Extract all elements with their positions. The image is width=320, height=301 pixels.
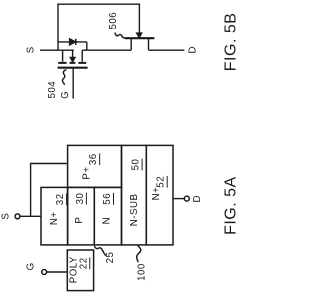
label 25 leader squiggle [94,246,105,256]
node S (FIG.5B) [25,46,36,53]
label 504 leader squiggle [62,70,66,85]
label N (box 56) [101,217,112,225]
svg-text:32: 32 [55,193,66,205]
wire S lead (FIG.5B) [40,49,74,51]
transistor 506 channel bar [125,37,155,39]
label N+ (box 52) [151,187,162,201]
wire N+ 52 to D [173,198,184,200]
svg-text:30: 30 [75,193,86,205]
transistor 504 body stub [72,50,74,57]
label 504 [47,81,58,99]
transistor 506 right leg [148,39,150,50]
region box N-SUB 50 [122,145,147,245]
diode (body diode of 504) [70,39,76,45]
region box N 56 [94,187,121,245]
svg-text:D: D [188,46,199,54]
label POLY (box 22) [68,256,79,283]
label 52 [156,176,167,188]
svg-text:N: N [101,217,112,225]
svg-text:N+: N+ [151,187,162,201]
svg-text:50: 50 [131,159,142,171]
svg-text:FIG. 5A: FIG. 5A [223,176,240,235]
wire gate lead of 504 [72,69,74,99]
label 32 [55,193,66,205]
svg-text:P: P [74,217,85,224]
label 100 leader squiggle [137,246,141,263]
label 506 leader squiggle [115,33,125,39]
transistor 504 channel segments [58,62,86,64]
svg-text:52: 52 [156,176,167,188]
svg-text:FIG. 5B: FIG. 5B [223,13,240,72]
svg-text:56: 56 [102,193,113,205]
label 22 [78,257,89,269]
transistor 504 drain stub [81,50,83,62]
wire S branch to P+ 36 [31,164,68,217]
label 506 [108,12,119,30]
label 50 [131,159,142,171]
wire top rail from source to gate of 506 [58,4,139,50]
terminal circle S [15,214,20,219]
region box N+ 32 [41,187,68,245]
figure title FIG. 5A [223,176,240,235]
terminal circle G [42,270,47,275]
label N-SUB (box 50) [129,194,140,227]
wire D lead (FIG.5B) [149,49,185,51]
transistor 506 left leg [130,39,132,50]
wire S to N+ 32 [20,215,41,217]
label 30 [75,193,86,205]
svg-text:506: 506 [108,12,119,30]
svg-text:D: D [192,195,203,203]
svg-text:N-SUB: N-SUB [129,194,140,227]
terminal circle D [184,196,189,201]
label 25 [105,252,116,264]
svg-text:25: 25 [105,252,116,264]
transistor 506 gate arrow [137,33,142,38]
svg-text:100: 100 [137,263,148,281]
node G (FIG.5B) [60,91,71,99]
node S terminal (FIG.5A) [0,213,11,220]
region box POLY 22 [67,250,93,291]
label P (box 30) [74,217,85,224]
svg-text:36: 36 [88,153,99,165]
region box P+ 36 [68,145,122,187]
svg-text:G: G [26,262,37,270]
figure title FIG. 5B [223,13,240,72]
node D (FIG.5B) [188,46,199,54]
svg-text:P+: P+ [82,166,93,179]
region box N+ 52 [146,145,173,245]
wire drain of 504 to 506 [82,49,131,51]
node D terminal (FIG.5A) [192,195,203,203]
svg-text:N+: N+ [49,211,60,225]
svg-text:G: G [60,91,71,99]
label N+ (box 32) [49,211,60,225]
transistor Q 504 (MOSFET) source stub [62,50,64,62]
svg-text:S: S [25,46,36,53]
label 56 [102,193,113,205]
svg-text:S: S [0,213,11,220]
wire G to POLY 22 [47,271,67,273]
transistor 504 body arrow [70,58,75,62]
label 100 [137,263,148,281]
svg-text:504: 504 [47,81,58,99]
transistor 504 gate plate [58,67,88,69]
label 36 [88,153,99,165]
wire diode branch [58,42,87,50]
node G terminal (FIG.5A) [26,262,37,270]
svg-text:22: 22 [78,257,89,269]
region box P 30 [68,187,95,245]
label P+ (box 36) [82,166,93,179]
